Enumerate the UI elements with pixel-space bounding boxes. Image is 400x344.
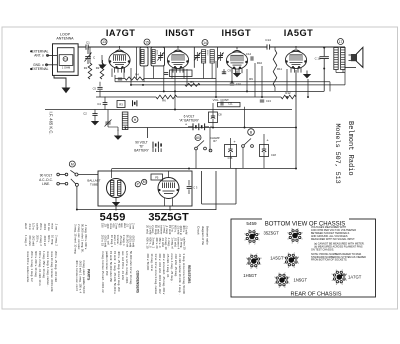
svg-text:60: 60 (196, 136, 200, 140)
svg-text:200 v. .25 meg. .002 mfd: 200 v. .25 meg. .002 mfd (54, 251, 58, 282)
svg-text:.0001: .0001 (43, 223, 47, 230)
svg-text:osc. coil 150 v. .01 mfd.: osc. coil 150 v. .01 mfd. (121, 251, 125, 280)
svg-text:.0001 mfd. 1 meg. 150 v. 4: .0001 mfd. 1 meg. 150 v. 4 (79, 260, 83, 294)
svg-text:I.F. 465 K.C.: I.F. 465 K.C. (49, 112, 54, 135)
svg-text:400 v. trimmer osc. coil 6: 400 v. trimmer osc. coil 6 (75, 260, 79, 291)
svg-text:R11: R11 (277, 67, 282, 71)
svg-text:C 3: C 3 (193, 186, 198, 190)
svg-text:14: 14 (203, 41, 207, 45)
svg-text:200 v. 50,000: 200 v. 50,000 (146, 254, 150, 271)
svg-text:50,000 ohm 1 meg. 50,: 50,000 ohm 1 meg. 50, (81, 224, 85, 253)
svg-text:PARTS: PARTS (87, 269, 91, 281)
svg-text:3 meg. elect. padder 50,00: 3 meg. elect. padder 50,00 (82, 260, 86, 294)
svg-text:EXTERNAL: EXTERNAL (32, 67, 49, 71)
svg-text:400 v. mica elect. .25 meg. 20: 400 v. mica elect. .25 meg. 200 v (162, 254, 166, 295)
svg-text:LINE.: LINE. (42, 182, 50, 186)
svg-text:1 OHM: 1 OHM (62, 66, 70, 70)
svg-text:R5: R5 (190, 80, 194, 84)
svg-text:mica 1 meg. 1 meg. carbon .: mica 1 meg. 1 meg. carbon . (46, 251, 50, 287)
svg-text:150 v. 2 meg. .01 mfd. 10 m: 150 v. 2 meg. .01 mfd. 10 m (38, 251, 42, 286)
svg-text:600 v. .: 600 v. . (47, 235, 51, 244)
svg-text:C5: C5 (93, 86, 97, 90)
svg-text:IA7GT: IA7GT (106, 28, 136, 38)
svg-text:3 meg. trimmer 15 mmf. .0001 m: 3 meg. trimmer 15 mmf. .0001 mf (101, 251, 105, 293)
svg-text:35Z5GT: 35Z5GT (264, 231, 280, 236)
svg-text:diagram of the: diagram of the (201, 226, 205, 246)
svg-text:200 v. .002 mfd. .0001 mfd. .0: 200 v. .002 mfd. .0001 mfd. .002 (158, 254, 162, 295)
svg-text:200 v. 1 meg. 1 meg. 1/2: 200 v. 1 meg. 1 meg. 1/2 (30, 251, 34, 282)
svg-text:200 v. .: 200 v. . (35, 235, 39, 244)
svg-text:5459: 5459 (246, 221, 257, 226)
svg-text:5459: 5459 (100, 212, 126, 224)
svg-text:.01 mfd. carbon 20 mfd. .1 meg: .01 mfd. carbon 20 mfd. .1 meg. . (178, 254, 182, 295)
svg-text:VOL. CONT.: VOL. CONT. (213, 98, 230, 102)
svg-text:C13: C13 (266, 99, 271, 103)
svg-text:TUBE: TUBE (90, 183, 98, 187)
svg-text:BATTERY: BATTERY (134, 149, 149, 153)
svg-text:.0001 mf: .0001 mf (43, 235, 47, 246)
svg-text:17: 17 (339, 40, 343, 44)
svg-text:C8: C8 (218, 113, 222, 117)
svg-text:Circuit: Circuit (197, 226, 201, 235)
svg-text:13: 13 (102, 40, 106, 44)
svg-text:REAR OF CHASSIS: REAR OF CHASSIS (291, 291, 342, 297)
svg-text:C2: C2 (83, 112, 87, 116)
svg-text:.1 me: .1 me (54, 223, 58, 230)
svg-text:3 meg. 15 mmf. 10 meg: 3 meg. 15 mmf. 10 meg (74, 224, 78, 254)
svg-text:90 VOLT: 90 VOLT (40, 174, 53, 178)
svg-text:1H5GT: 1H5GT (243, 273, 257, 278)
svg-text:elect: elect (24, 223, 28, 229)
svg-text:RESISTORS: RESISTORS (187, 265, 191, 283)
svg-text:Belmont Radio: Belmont Radio (346, 121, 354, 176)
svg-text:C14: C14 (265, 38, 271, 42)
svg-text:C9: C9 (228, 69, 232, 73)
svg-text:2 me: 2 me (131, 223, 135, 230)
svg-text:M: M (143, 180, 146, 184)
svg-text:carbon 15: carbon 15 (183, 237, 187, 250)
svg-text:.01 m: .01 m (28, 223, 32, 231)
svg-text:carbo: carbo (35, 223, 39, 230)
svg-text:35Z5GT: 35Z5GT (148, 212, 189, 224)
svg-text:R4: R4 (135, 73, 139, 77)
svg-text:R10: R10 (257, 61, 263, 65)
svg-text:1/2 w. 1/2 w. 3 meg. .0001: 1/2 w. 1/2 w. 3 meg. .0001 (125, 251, 129, 284)
svg-text:P5: P5 (155, 176, 159, 180)
svg-text:R7: R7 (213, 139, 217, 143)
svg-text:C18: C18 (271, 153, 276, 157)
svg-text:.1 meg. 150 v. 600 v.: .1 meg. 150 v. 600 v. (84, 224, 88, 250)
svg-text:R2: R2 (96, 66, 100, 70)
svg-text:C12: C12 (246, 52, 252, 56)
svg-text:1 meg. 2: 1 meg. 2 (24, 235, 28, 246)
svg-text:MEASURED WITH NO SIGNAL INPUT.: MEASURED WITH NO SIGNAL INPUT. (311, 238, 355, 241)
svg-text:IN5GT: IN5GT (165, 28, 195, 38)
svg-text:2 meg. osc. coil elec: 2 meg. osc. coil elec (77, 224, 81, 250)
svg-text:ON TEST CHASSIS.: ON TEST CHASSIS. (311, 248, 334, 251)
svg-text:R9: R9 (249, 77, 253, 81)
svg-text:3 meg. mica mica 3 meg. 50,000: 3 meg. mica mica 3 meg. 50,000 (182, 254, 186, 295)
svg-text:15 mmf. 50,000 ohm 150: 15 mmf. 50,000 ohm 150 (109, 251, 113, 283)
svg-text:1A5GT: 1A5GT (270, 256, 284, 261)
svg-text:400 v. .25 meg. mica 3 meg. 20: 400 v. .25 meg. mica 3 meg. 200 (117, 251, 121, 292)
svg-text:470 ohm: 470 ohm (28, 235, 32, 247)
svg-text:1A7GT: 1A7GT (348, 275, 362, 280)
svg-text:600 v. 200 v. 10 meg: 600 v. 200 v. 10 meg (34, 251, 38, 277)
svg-text:2 meg. 2: 2 meg. 2 (54, 235, 58, 246)
svg-text:"A" BATTERY: "A" BATTERY (179, 119, 200, 123)
svg-text:FROM BOTTOM OF SOCKETS.: FROM BOTTOM OF SOCKETS. (311, 259, 348, 262)
svg-text:1/2 w. 1/2 w. mica 3 meg. carb: 1/2 w. 1/2 w. mica 3 meg. carbon (154, 254, 158, 295)
svg-text:ANT. o: ANT. o (34, 54, 44, 58)
svg-text:R6: R6 (162, 98, 166, 102)
svg-text:mica: mica (51, 223, 55, 229)
svg-text:mica .1 meg. .25 meg. .: mica .1 meg. .25 meg. . (170, 254, 174, 283)
svg-text:.01 mfd: .01 mfd (185, 225, 189, 235)
svg-text:C4: C4 (97, 102, 101, 106)
svg-text:CONDENSERS: CONDENSERS (136, 271, 140, 294)
svg-text:mica 600 v. carbon carbo: mica 600 v. carbon carbo (26, 251, 30, 283)
svg-text:15 mmf. .1 meg. .05 mfd. 50,00: 15 mmf. .1 meg. .05 mfd. 50,000 o (113, 251, 117, 294)
svg-text:1/2 w: 1/2 w (32, 223, 36, 231)
svg-text:.05 mfd. 1 meg. .01: .05 mfd. 1 meg. .01 (166, 254, 170, 279)
svg-text:.0001 mfd: .0001 mfd (132, 235, 136, 248)
svg-text:Models 507, 513: Models 507, 513 (333, 124, 341, 184)
svg-text:10 me: 10 me (47, 223, 51, 231)
svg-text:15: 15 (145, 40, 149, 44)
svg-text:padder trimmer 150: padder trimmer 150 (105, 251, 109, 276)
svg-text:2 meg. 2: 2 meg. 2 (39, 235, 43, 246)
svg-text:C10: C10 (236, 82, 241, 86)
svg-text:465KC: 465KC (156, 50, 158, 56)
svg-text:50,000 ohm 1/2 w. 10 meg.: 50,000 ohm 1/2 w. 10 meg. (129, 251, 133, 285)
svg-text:200 v: 200 v (39, 223, 43, 230)
svg-text:Belmont radio: Belmont radio (206, 226, 210, 245)
svg-text:IH5GT: IH5GT (222, 28, 252, 38)
svg-text:IA5GT: IA5GT (284, 28, 314, 38)
svg-text:ANTENNA: ANTENNA (56, 37, 74, 41)
svg-text:C1: C1 (86, 40, 90, 44)
svg-text:R3: R3 (119, 103, 123, 107)
svg-text:M: M (71, 162, 74, 166)
svg-text:.002 mfd. .25 meg.: .002 mfd. .25 meg. (174, 254, 178, 278)
svg-text:mica 10 meg. trimmer .0001 mfd: mica 10 meg. trimmer .0001 mfd. (50, 251, 54, 292)
svg-text:R1: R1 (84, 66, 88, 70)
svg-text:R12: R12 (285, 91, 291, 95)
svg-text:1N5GT: 1N5GT (294, 278, 308, 283)
svg-text:465KC: 465KC (206, 50, 208, 56)
svg-text:10 meg.: 10 meg. (51, 235, 55, 245)
svg-text:10 meg. 1/2 w: 10 meg. 1/2 w (150, 254, 154, 273)
svg-text:.002 mfd: .002 mfd (32, 235, 36, 246)
svg-text:1 meg. 150 v. 10 meg: 1 meg. 150 v. 10 meg (42, 251, 46, 278)
